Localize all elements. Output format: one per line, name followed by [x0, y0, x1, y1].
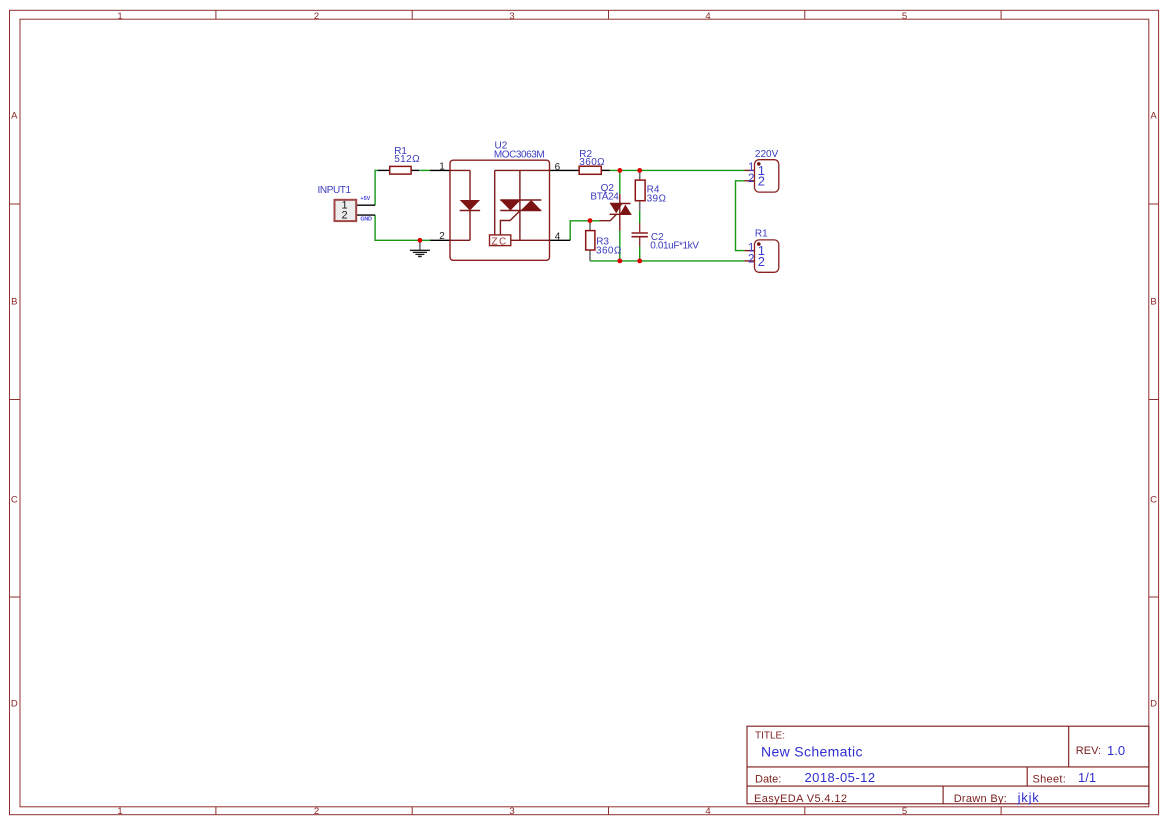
- U2 internal triac rails: [495, 170, 550, 235]
- wire 220V pin2 to R1 pin1: [736, 181, 745, 251]
- svg-text:2018-05-12: 2018-05-12: [805, 770, 876, 785]
- triac Q2: [590, 183, 631, 231]
- svg-text:2: 2: [758, 254, 765, 269]
- svg-text:1: 1: [439, 161, 445, 172]
- pin stub U2 pin6 and R2 left: [550, 169, 580, 171]
- svg-text:0.01uF*1kV: 0.01uF*1kV: [650, 241, 699, 252]
- svg-text:39Ω: 39Ω: [647, 194, 667, 205]
- svg-text:MOC3063M: MOC3063M: [494, 150, 544, 161]
- svg-text:6: 6: [555, 162, 561, 173]
- U2 triac right triangle: [521, 200, 542, 211]
- C2 plates: [632, 233, 648, 237]
- svg-text:D: D: [1150, 698, 1157, 709]
- svg-text:Sheet:: Sheet:: [1033, 774, 1067, 786]
- svg-text:360Ω: 360Ω: [579, 157, 605, 168]
- capacitor C2: [632, 223, 700, 252]
- resistor R4: [635, 180, 666, 205]
- svg-text:2: 2: [314, 11, 319, 22]
- svg-text:B: B: [1150, 297, 1156, 308]
- wire Q2 MT1 to bottom rail: [619, 231, 621, 261]
- pin stub U2 pin2: [430, 239, 450, 241]
- svg-text:R1: R1: [755, 229, 768, 240]
- title block: [747, 726, 1149, 804]
- svg-text:2: 2: [314, 806, 319, 817]
- svg-text:3: 3: [509, 806, 514, 817]
- pin stub U2 pin1: [430, 169, 450, 171]
- svg-text:ZC: ZC: [492, 236, 508, 247]
- wire R1 to U2 pin1: [419, 169, 430, 171]
- svg-text:C: C: [1150, 495, 1157, 506]
- pin stub R4 bottom: [639, 201, 641, 211]
- svg-text:REV:: REV:: [1076, 745, 1101, 757]
- svg-text:BTA24: BTA24: [590, 191, 619, 202]
- svg-text:4: 4: [705, 11, 710, 22]
- connector R1: [744, 229, 778, 273]
- U2 triac left triangle: [500, 200, 521, 211]
- svg-text:1: 1: [117, 11, 122, 22]
- pin stub U2 pin4: [550, 239, 571, 241]
- pin stub INPUT1 pin2: [356, 214, 375, 216]
- Q2 gate line: [600, 215, 617, 221]
- svg-text:2: 2: [758, 174, 765, 189]
- svg-text:C: C: [11, 495, 18, 506]
- pin stub INPUT1 pin1: [356, 204, 375, 206]
- pin stub R3 bottom: [589, 250, 591, 261]
- svg-text:New Schematic: New Schematic: [761, 744, 863, 760]
- svg-text:INPUT1: INPUT1: [318, 185, 352, 196]
- svg-text:1/1: 1/1: [1078, 770, 1096, 785]
- svg-text:4: 4: [705, 806, 710, 817]
- U2 LED triangle: [460, 200, 480, 211]
- resistor R3: [586, 231, 622, 257]
- node ground junction: [418, 238, 423, 243]
- pin stub R4 top: [639, 170, 641, 180]
- wire R4 to C2: [639, 210, 641, 223]
- U2 LED anode line: [450, 170, 470, 200]
- svg-text:jkjk: jkjk: [1017, 790, 1040, 805]
- svg-text:5: 5: [902, 806, 907, 817]
- connector INPUT1: [318, 185, 373, 223]
- connector 220V: [744, 149, 778, 192]
- svg-text:1: 1: [117, 806, 122, 817]
- Q2 MT2 and MT1 bars: [610, 204, 632, 215]
- svg-text:2: 2: [439, 231, 445, 242]
- resistor R2: [579, 149, 605, 174]
- wire R2 to 220V pin1 top rail: [610, 169, 745, 171]
- Q2 right triangle: [620, 205, 632, 215]
- node top rail Q2: [617, 168, 622, 173]
- U2 gate line: [500, 211, 520, 235]
- svg-text:GND: GND: [360, 217, 372, 223]
- node bottom rail C2: [637, 259, 642, 264]
- resistor R1: [390, 146, 420, 174]
- svg-text:A: A: [11, 111, 18, 122]
- wire bottom rail R3 to R1 pin2: [590, 260, 744, 262]
- wire C2 to bottom rail: [639, 247, 641, 261]
- svg-text:2: 2: [748, 253, 754, 265]
- svg-text:2: 2: [342, 210, 348, 222]
- svg-text:512Ω: 512Ω: [394, 154, 420, 165]
- U2 zero-crossing box ZC: [490, 235, 511, 246]
- wire INPUT1 pin2 to U2 pin2: [375, 215, 430, 240]
- node gate R3: [588, 218, 593, 223]
- optocoupler U2: [439, 141, 561, 261]
- wire top rail to Q2 MT2: [619, 170, 621, 194]
- wire U2 pin4 to Q2 gate: [570, 221, 599, 241]
- svg-text:4: 4: [555, 232, 561, 243]
- svg-text:2: 2: [748, 173, 754, 185]
- svg-text:+5V: +5V: [360, 196, 370, 202]
- svg-text:5: 5: [902, 11, 907, 22]
- svg-text:EasyEDA V5.4.12: EasyEDA V5.4.12: [754, 793, 847, 805]
- svg-text:220V: 220V: [755, 149, 779, 160]
- svg-text:3: 3: [509, 11, 514, 22]
- svg-text:D: D: [11, 698, 18, 709]
- svg-text:B: B: [11, 297, 17, 308]
- svg-text:TITLE:: TITLE:: [755, 731, 785, 742]
- pin stub R1 left: [378, 169, 390, 171]
- ground: [410, 240, 430, 256]
- svg-text:360Ω: 360Ω: [596, 246, 622, 257]
- pin stub R3 top: [589, 221, 591, 231]
- svg-text:A: A: [1150, 111, 1157, 122]
- svg-text:Drawn By:: Drawn By:: [954, 793, 1007, 805]
- svg-text:Date:: Date:: [755, 774, 781, 786]
- node top rail R4: [637, 168, 642, 173]
- wire INPUT1 pin1 to R1: [375, 170, 378, 205]
- pin stub R2 right: [601, 169, 610, 171]
- pin stub R1 right: [411, 169, 419, 171]
- node bottom rail Q2: [617, 259, 622, 264]
- svg-text:1.0: 1.0: [1107, 743, 1125, 758]
- Q2 left triangle: [610, 204, 622, 214]
- U2 LED cathode bar: [460, 210, 480, 212]
